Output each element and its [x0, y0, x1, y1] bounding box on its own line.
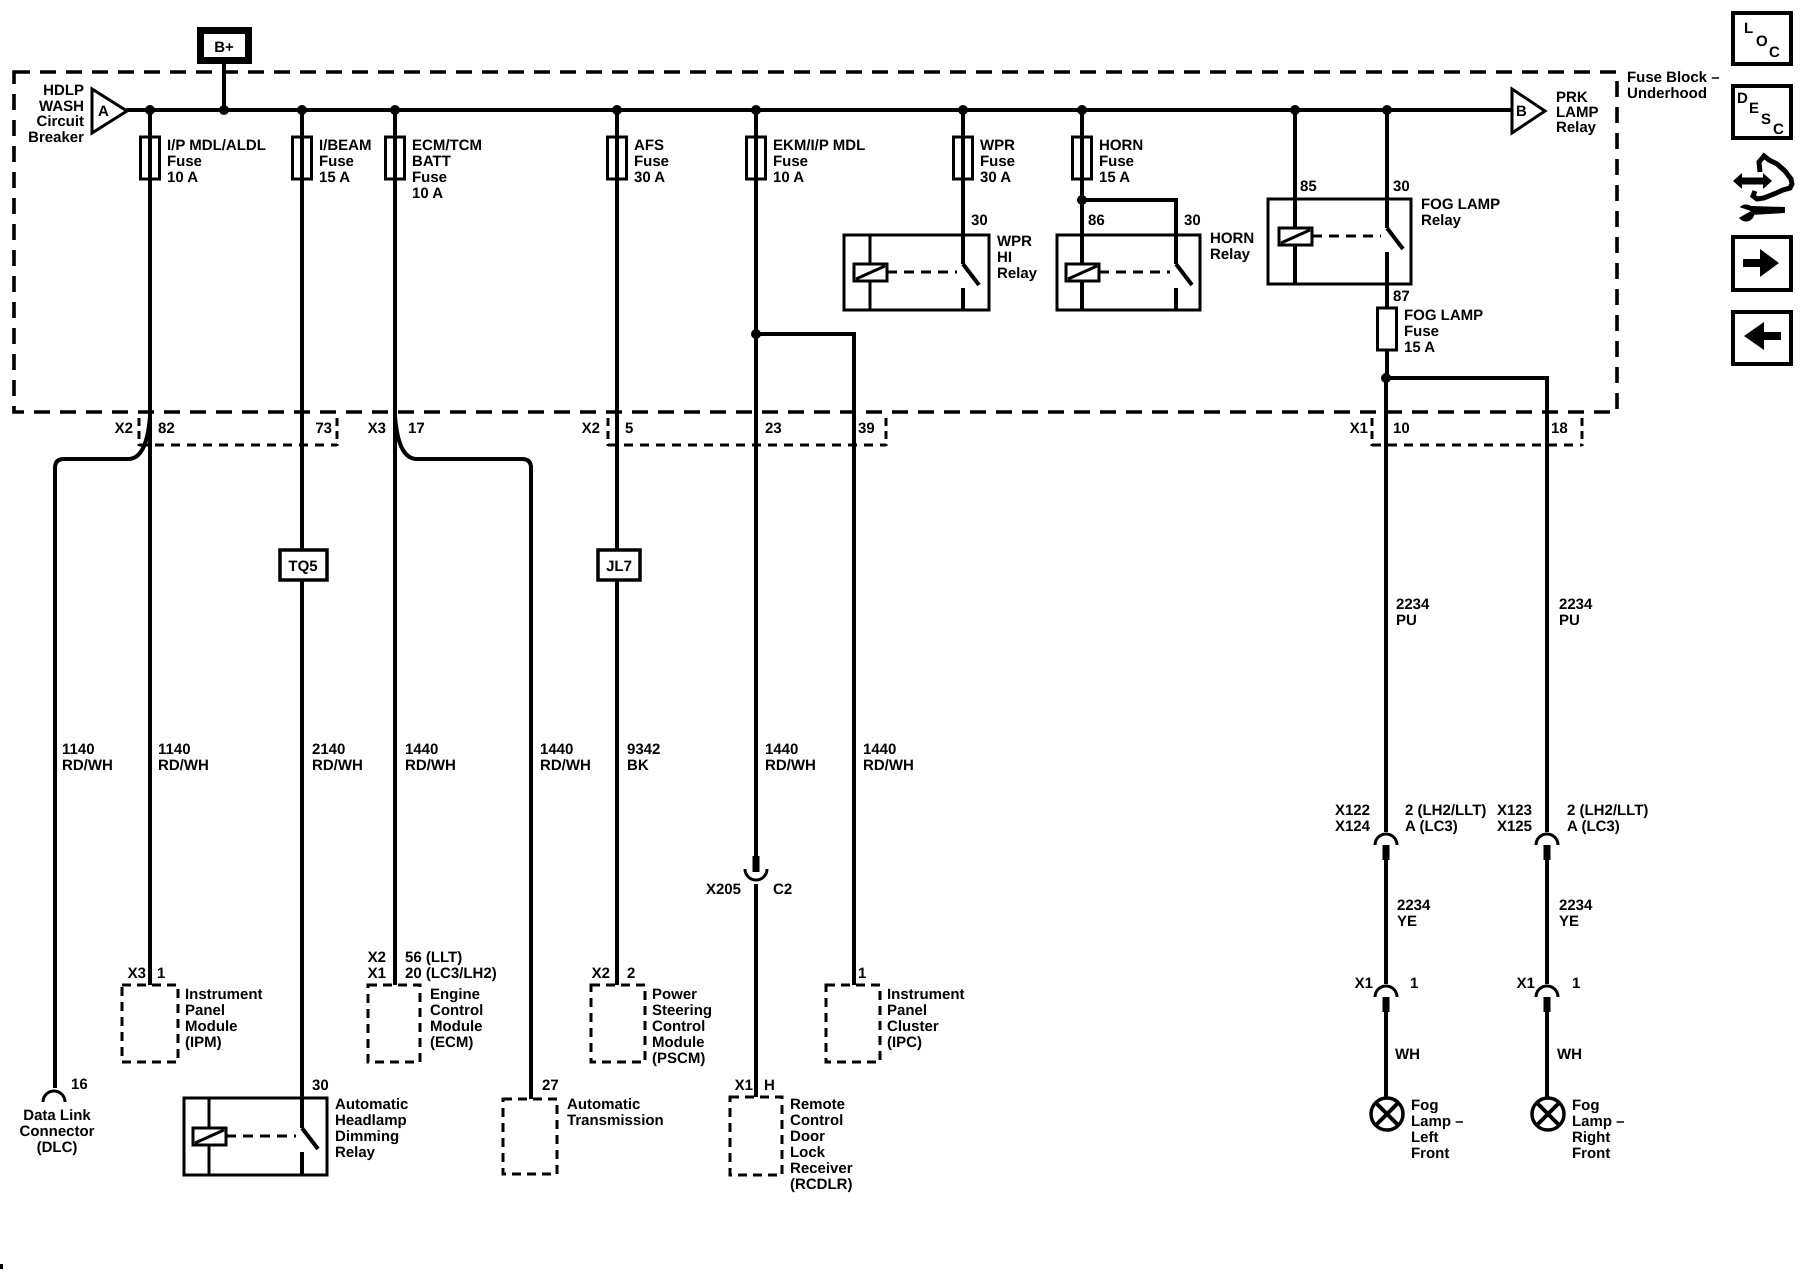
- svg-text:X122: X122: [1335, 802, 1370, 819]
- svg-text:X2: X2: [592, 965, 610, 982]
- net label 2234 YE left: [1397, 897, 1431, 930]
- svg-text:Fuse: Fuse: [773, 153, 808, 170]
- splice box JL7: [598, 550, 640, 580]
- wire fog right mid: [1545, 860, 1549, 984]
- svg-text:Left: Left: [1411, 1129, 1439, 1146]
- wire B+ stem: [222, 64, 226, 110]
- svg-text:73: 73: [315, 420, 332, 437]
- icon LOC box: [1733, 13, 1791, 64]
- svg-text:87: 87: [1393, 288, 1410, 305]
- svg-text:23: 23: [765, 420, 782, 437]
- connector X1 pin1 fog right: [1517, 975, 1581, 1012]
- svg-text:RD/WH: RD/WH: [540, 757, 591, 774]
- svg-text:E: E: [1749, 100, 1759, 117]
- lamp fog right front: [1532, 1097, 1625, 1162]
- svg-text:JL7: JL7: [606, 558, 632, 575]
- svg-text:X1: X1: [368, 965, 386, 982]
- module Automatic Transmission dashed box: [503, 1077, 664, 1174]
- svg-text:YE: YE: [1397, 913, 1417, 930]
- svg-text:(ECM): (ECM): [430, 1034, 473, 1051]
- junction dot horn branch: [1077, 195, 1087, 205]
- svg-text:Power: Power: [652, 986, 697, 1003]
- wire TQ5 to dimming relay pin30: [300, 580, 304, 1128]
- svg-text:Lamp –: Lamp –: [1572, 1113, 1625, 1130]
- wire fuse F1 to IPM: [148, 110, 152, 985]
- fuse F4 AFS 30A: [608, 137, 670, 186]
- svg-text:X1: X1: [735, 1077, 753, 1094]
- icon back arrow box: [1733, 312, 1791, 364]
- junction dot bus F7: [1077, 105, 1087, 115]
- svg-text:18: 18: [1551, 420, 1568, 437]
- svg-text:HORN: HORN: [1210, 230, 1254, 247]
- svg-text:X205: X205: [706, 881, 741, 898]
- fuse F6 WPR 30A: [954, 137, 1016, 186]
- wire fuse F5 to X205: [754, 110, 758, 857]
- connector X123/X125 fog right: [1497, 802, 1648, 860]
- svg-text:39: 39: [858, 420, 875, 437]
- svg-text:15 A: 15 A: [319, 169, 350, 186]
- svg-text:Front: Front: [1411, 1145, 1449, 1162]
- net label 2234 PU right: [1559, 596, 1593, 629]
- wire branch to automatic transmission: [395, 416, 531, 1099]
- svg-text:20 (LC3/LH2): 20 (LC3/LH2): [405, 965, 497, 982]
- svg-text:Fog: Fog: [1411, 1097, 1439, 1114]
- svg-text:1440: 1440: [540, 741, 573, 758]
- svg-text:(PSCM): (PSCM): [652, 1050, 705, 1067]
- svg-text:WH: WH: [1395, 1046, 1420, 1063]
- wire fuse F2 to TQ5: [300, 110, 304, 550]
- svg-text:A (LC3): A (LC3): [1567, 818, 1620, 835]
- connector X205 C2: [706, 856, 792, 898]
- svg-text:RD/WH: RD/WH: [158, 757, 209, 774]
- svg-text:TQ5: TQ5: [288, 558, 317, 575]
- svg-text:30: 30: [971, 212, 988, 229]
- wire fog fuse to junction: [1385, 350, 1389, 378]
- svg-text:RD/WH: RD/WH: [765, 757, 816, 774]
- wire fuse F4 to JL7: [615, 110, 619, 550]
- junction dot bus fog relay pin85: [1290, 105, 1300, 115]
- fuse F1 I/P MDL/ALDL 10A: [141, 137, 266, 186]
- junction dot bus F3: [390, 105, 400, 115]
- svg-text:Fuse: Fuse: [167, 153, 202, 170]
- svg-text:Fuse: Fuse: [412, 169, 447, 186]
- svg-text:85: 85: [1300, 178, 1317, 195]
- main bus wire: [126, 108, 1512, 112]
- svg-text:C: C: [1769, 44, 1780, 61]
- svg-text:1: 1: [858, 965, 866, 982]
- fuse F7 HORN 15A: [1073, 137, 1144, 186]
- net label 1140 RD/WH (DLC): [62, 741, 113, 774]
- svg-text:Relay: Relay: [997, 265, 1038, 282]
- wire fuse F6 to WPR relay pin30: [961, 110, 965, 264]
- fuse F3 ECM/TCM BATT 10A: [386, 137, 483, 202]
- svg-text:2140: 2140: [312, 741, 345, 758]
- svg-text:30: 30: [1184, 212, 1201, 229]
- svg-text:1140: 1140: [62, 741, 95, 758]
- svg-text:Control: Control: [430, 1002, 483, 1019]
- circuit breaker A: HDLP WASH: [92, 89, 127, 133]
- svg-text:10 A: 10 A: [412, 185, 443, 202]
- net label 9342 BK: [627, 741, 660, 774]
- net label 1440 RD/WH (IPC): [863, 741, 914, 774]
- svg-text:1: 1: [1572, 975, 1580, 992]
- svg-text:1: 1: [157, 965, 165, 982]
- svg-text:Front: Front: [1572, 1145, 1610, 1162]
- svg-text:2 (LH2/LLT): 2 (LH2/LLT): [1405, 802, 1486, 819]
- svg-text:BK: BK: [627, 757, 649, 774]
- svg-text:RD/WH: RD/WH: [312, 757, 363, 774]
- svg-text:RD/WH: RD/WH: [62, 757, 113, 774]
- svg-text:I/BEAM: I/BEAM: [319, 137, 372, 154]
- connector X3 pin 17: [368, 420, 425, 437]
- net label 1440 RD/WH (AT): [540, 741, 591, 774]
- svg-text:X2: X2: [115, 420, 133, 437]
- svg-text:WH: WH: [1557, 1046, 1582, 1063]
- svg-text:RD/WH: RD/WH: [405, 757, 456, 774]
- svg-text:I/P MDL/ALDL: I/P MDL/ALDL: [167, 137, 266, 154]
- svg-text:Relay: Relay: [1210, 246, 1251, 263]
- fuse F2 I/BEAM 15A: [293, 137, 372, 186]
- svg-text:Relay: Relay: [1556, 119, 1597, 136]
- svg-text:YE: YE: [1559, 913, 1579, 930]
- icon swap arrows with wrench: [1733, 156, 1792, 222]
- lamp fog left front: [1371, 1097, 1464, 1162]
- svg-text:Fuse Block –: Fuse Block –: [1627, 69, 1720, 86]
- connector bracket X1 pins 10 18: [1350, 418, 1582, 446]
- svg-text:PU: PU: [1559, 612, 1580, 629]
- svg-text:Panel: Panel: [887, 1002, 927, 1019]
- connector bracket X2 pins 82 73: [115, 418, 337, 446]
- connector bracket X2 pins 5 23 39: [582, 418, 886, 446]
- net label 2234 YE right: [1559, 897, 1593, 930]
- svg-text:WPR: WPR: [997, 233, 1032, 250]
- wire fog left drop: [1384, 378, 1388, 832]
- svg-text:2: 2: [627, 965, 635, 982]
- svg-text:B: B: [1516, 103, 1527, 120]
- fuse F5 EKM/I/P MDL 10A: [747, 137, 866, 186]
- svg-text:A: A: [98, 103, 109, 120]
- svg-text:C: C: [1773, 121, 1784, 138]
- svg-text:Relay: Relay: [1421, 212, 1462, 229]
- svg-text:Receiver: Receiver: [790, 1160, 853, 1177]
- wire fuse F7 to HORN relay coil: [1080, 110, 1084, 310]
- svg-text:X1: X1: [1517, 975, 1535, 992]
- svg-text:Module: Module: [652, 1034, 705, 1051]
- wire branch fog right drop: [1386, 378, 1547, 832]
- B+ battery terminal: [201, 31, 249, 61]
- junction dot bus F1: [145, 105, 155, 115]
- wire JL7 to PSCM: [615, 580, 619, 985]
- svg-text:Automatic: Automatic: [567, 1096, 640, 1113]
- svg-text:(DLC): (DLC): [37, 1139, 78, 1156]
- svg-text:WPR: WPR: [980, 137, 1015, 154]
- junction dot bus fog relay pin30: [1382, 105, 1392, 115]
- module IPM dashed box: [122, 965, 263, 1062]
- svg-text:Underhood: Underhood: [1627, 85, 1707, 102]
- svg-text:Module: Module: [430, 1018, 483, 1035]
- svg-text:H: H: [764, 1077, 775, 1094]
- module ECM dashed box: [368, 949, 497, 1062]
- svg-text:16: 16: [71, 1076, 88, 1093]
- svg-text:1140: 1140: [158, 741, 191, 758]
- wire fog right lower: [1545, 1012, 1549, 1098]
- svg-text:Dimming: Dimming: [335, 1128, 399, 1145]
- svg-text:L: L: [1744, 20, 1753, 37]
- svg-text:PU: PU: [1396, 612, 1417, 629]
- module RCDLR dashed box: [730, 1077, 853, 1193]
- wire X205 to RCDLR: [754, 884, 758, 1097]
- svg-text:HDLP: HDLP: [43, 82, 84, 99]
- svg-text:Fuse: Fuse: [980, 153, 1015, 170]
- svg-text:X123: X123: [1497, 802, 1532, 819]
- svg-text:Door: Door: [790, 1128, 825, 1145]
- connector DLC pin 16: [43, 1076, 88, 1102]
- svg-text:2234: 2234: [1397, 897, 1431, 914]
- svg-text:Circuit: Circuit: [36, 113, 84, 130]
- net label 2234 PU left: [1396, 596, 1430, 629]
- svg-text:9342: 9342: [627, 741, 660, 758]
- svg-text:82: 82: [158, 420, 175, 437]
- svg-text:Automatic: Automatic: [335, 1096, 408, 1113]
- wire fog left lower: [1384, 1012, 1388, 1098]
- svg-text:Steering: Steering: [652, 1002, 712, 1019]
- svg-text:30: 30: [312, 1077, 329, 1094]
- fuse F8 FOG LAMP 15A: [1378, 307, 1484, 356]
- fuse block underhood dashed border: [14, 72, 1617, 412]
- junction dot bus F5: [751, 105, 761, 115]
- svg-text:X3: X3: [128, 965, 146, 982]
- svg-text:86: 86: [1088, 212, 1105, 229]
- svg-text:15 A: 15 A: [1099, 169, 1130, 186]
- svg-text:2234: 2234: [1559, 596, 1593, 613]
- svg-text:2234: 2234: [1559, 897, 1593, 914]
- svg-text:X2: X2: [368, 949, 386, 966]
- connector X1 pin1 fog left: [1355, 975, 1419, 1012]
- svg-text:C2: C2: [773, 881, 792, 898]
- connector X122/X124 fog left: [1335, 802, 1486, 860]
- svg-text:1440: 1440: [863, 741, 896, 758]
- svg-text:O: O: [1756, 33, 1768, 50]
- svg-text:AFS: AFS: [634, 137, 664, 154]
- svg-text:Lamp –: Lamp –: [1411, 1113, 1464, 1130]
- svg-text:Control: Control: [652, 1018, 705, 1035]
- svg-text:Right: Right: [1572, 1129, 1610, 1146]
- junction dot bus F4: [612, 105, 622, 115]
- svg-text:Relay: Relay: [335, 1144, 376, 1161]
- svg-text:Panel: Panel: [185, 1002, 225, 1019]
- svg-text:X1: X1: [1355, 975, 1373, 992]
- svg-text:Instrument: Instrument: [185, 986, 263, 1003]
- svg-text:X124: X124: [1335, 818, 1371, 835]
- junction dot fog branch: [1381, 373, 1391, 383]
- svg-text:Transmission: Transmission: [567, 1112, 664, 1129]
- svg-text:Module: Module: [185, 1018, 238, 1035]
- svg-text:Data Link: Data Link: [23, 1107, 91, 1124]
- wire branch to horn relay pin30: [1082, 200, 1176, 264]
- wire fog left mid: [1384, 860, 1388, 984]
- label Data Link Connector (DLC): [20, 1107, 95, 1156]
- splice box TQ5: [280, 550, 327, 580]
- svg-text:Fog: Fog: [1572, 1097, 1600, 1114]
- relay U3 FOG LAMP Relay: [1268, 178, 1500, 305]
- module IPC dashed box: [826, 965, 965, 1062]
- svg-text:1440: 1440: [405, 741, 438, 758]
- svg-text:RD/WH: RD/WH: [863, 757, 914, 774]
- svg-text:Breaker: Breaker: [28, 129, 84, 146]
- label PRK LAMP Relay: [1556, 89, 1599, 136]
- label HDLP WASH Circuit Breaker: [28, 82, 84, 146]
- net label 1440 RD/WH (ECM): [405, 741, 456, 774]
- icon forward arrow box: [1733, 237, 1791, 290]
- wire branch to DLC: [55, 416, 150, 1088]
- relay U1 WPR HI Relay: [844, 212, 1038, 310]
- svg-text:17: 17: [408, 420, 425, 437]
- svg-text:Headlamp: Headlamp: [335, 1112, 407, 1129]
- wire fuse F3 to ECM: [393, 110, 397, 985]
- junction dot bus B+: [219, 105, 229, 115]
- svg-text:30 A: 30 A: [634, 169, 665, 186]
- svg-text:Fuse: Fuse: [1099, 153, 1134, 170]
- svg-text:X125: X125: [1497, 818, 1532, 835]
- svg-text:10 A: 10 A: [773, 169, 804, 186]
- svg-text:10 A: 10 A: [167, 169, 198, 186]
- svg-text:FOG LAMP: FOG LAMP: [1421, 196, 1500, 213]
- svg-text:10: 10: [1393, 420, 1410, 437]
- svg-text:BATT: BATT: [412, 153, 451, 170]
- junction dot bus F2: [297, 105, 307, 115]
- svg-text:HI: HI: [997, 249, 1012, 266]
- wire bus to fog relay pin30: [1385, 110, 1389, 228]
- wire fog relay pin87 to fog fuse: [1385, 252, 1389, 308]
- icon DESC box: [1733, 86, 1791, 138]
- svg-text:(RCDLR): (RCDLR): [790, 1176, 852, 1193]
- net label 1440 RD/WH (RCDLR): [765, 741, 816, 774]
- svg-text:(IPM): (IPM): [185, 1034, 222, 1051]
- svg-text:1: 1: [1410, 975, 1418, 992]
- svg-text:Fuse: Fuse: [319, 153, 354, 170]
- svg-text:HORN: HORN: [1099, 137, 1143, 154]
- svg-text:S: S: [1761, 111, 1771, 128]
- module PSCM dashed box: [591, 965, 712, 1067]
- svg-text:1440: 1440: [765, 741, 798, 758]
- svg-text:5: 5: [625, 420, 633, 437]
- svg-text:A (LC3): A (LC3): [1405, 818, 1458, 835]
- svg-text:30 A: 30 A: [980, 169, 1011, 186]
- net label 2140 RD/WH: [312, 741, 363, 774]
- svg-text:B+: B+: [214, 39, 234, 56]
- wire branch to IPC: [756, 334, 854, 985]
- relay U2 HORN Relay: [1057, 212, 1254, 310]
- svg-text:56 (LLT): 56 (LLT): [405, 949, 462, 966]
- svg-text:Cluster: Cluster: [887, 1018, 939, 1035]
- svg-text:2234: 2234: [1396, 596, 1430, 613]
- stray mark bottom left: [0, 1264, 3, 1269]
- net label 1140 RD/WH (IPM): [158, 741, 209, 774]
- PRK LAMP Relay terminal B: [1512, 89, 1545, 133]
- svg-text:Control: Control: [790, 1112, 843, 1129]
- svg-text:27: 27: [542, 1077, 559, 1094]
- svg-text:(IPC): (IPC): [887, 1034, 922, 1051]
- svg-text:ECM/TCM: ECM/TCM: [412, 137, 482, 154]
- svg-text:15 A: 15 A: [1404, 339, 1435, 356]
- svg-text:FOG LAMP: FOG LAMP: [1404, 307, 1483, 324]
- svg-text:X3: X3: [368, 420, 386, 437]
- svg-text:30: 30: [1393, 178, 1410, 195]
- svg-text:Fuse: Fuse: [1404, 323, 1439, 340]
- junction dot branch IPC: [751, 329, 761, 339]
- svg-text:Engine: Engine: [430, 986, 480, 1003]
- wire bus to fog relay coil pin85: [1293, 110, 1297, 284]
- svg-text:Connector: Connector: [20, 1123, 95, 1140]
- svg-text:EKM/I/P MDL: EKM/I/P MDL: [773, 137, 865, 154]
- svg-text:Fuse: Fuse: [634, 153, 669, 170]
- junction dot bus F6: [958, 105, 968, 115]
- relay U4 Automatic Headlamp Dimming Relay: [184, 1077, 408, 1175]
- svg-text:X2: X2: [582, 420, 600, 437]
- svg-text:2 (LH2/LLT): 2 (LH2/LLT): [1567, 802, 1648, 819]
- svg-text:Instrument: Instrument: [887, 986, 965, 1003]
- svg-text:X1: X1: [1350, 420, 1368, 437]
- svg-text:D: D: [1737, 90, 1748, 107]
- svg-text:Remote: Remote: [790, 1096, 845, 1113]
- svg-text:Lock: Lock: [790, 1144, 826, 1161]
